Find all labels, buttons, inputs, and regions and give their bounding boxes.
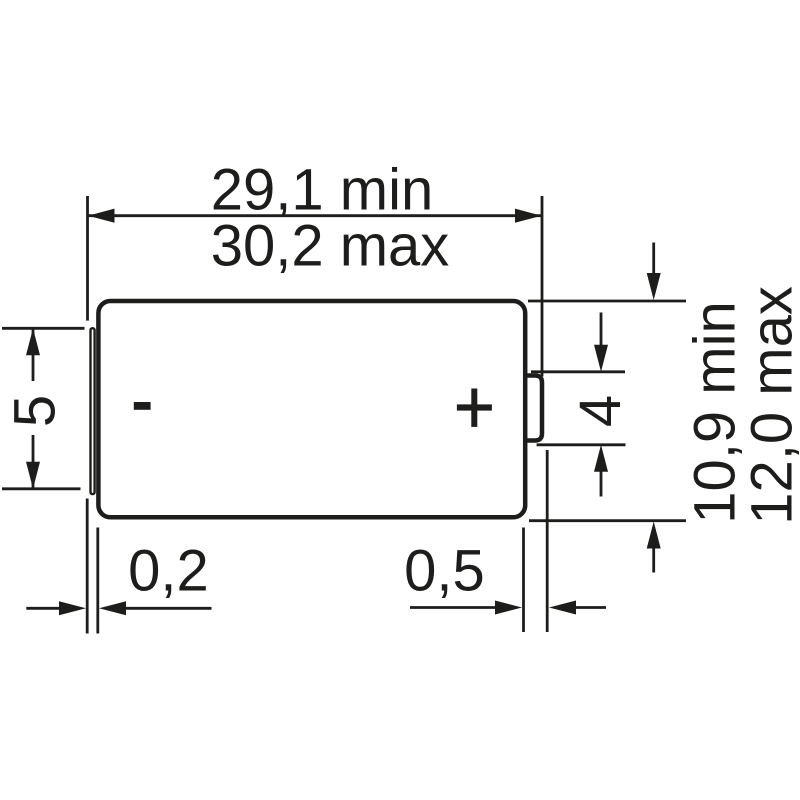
4 dimension bottom extension line	[537, 443, 626, 446]
4 dimension lower arrowhead	[594, 445, 608, 472]
0,2 dimension left arrowhead	[59, 601, 86, 615]
svg-text:10,9 min: 10,9 min	[683, 301, 748, 523]
0,5 dimension left extension line	[522, 528, 525, 633]
left 5 dimension top extension line	[2, 327, 85, 330]
svg-text:30,2 max: 30,2 max	[211, 214, 450, 279]
left 5 dimension lower shaft	[32, 435, 35, 489]
height dimension upper arrow shaft	[652, 243, 655, 277]
0,2 dimension left arrow shaft	[26, 607, 60, 610]
negative end cap plate	[91, 328, 95, 494]
left 5 dimension bottom extension line	[2, 487, 81, 490]
0,5 dimension right arrowhead	[549, 601, 576, 615]
svg-text:5: 5	[3, 395, 68, 427]
height dimension upper arrowhead	[647, 273, 661, 300]
top dimension line	[88, 214, 543, 217]
plus symbol horizontal bar	[457, 404, 492, 410]
4 dimension upper arrow shaft	[600, 313, 603, 349]
height dimension bottom extension line	[529, 519, 686, 522]
height dimension lower arrowhead	[647, 522, 661, 549]
4 dimension upper arrowhead	[594, 345, 608, 372]
height dimension lower arrow shaft	[652, 547, 655, 573]
0,2 dimension left extension line	[86, 499, 89, 634]
battery body outline	[98, 301, 525, 517]
4 dimension top extension line	[531, 370, 625, 373]
svg-text:12,0 max: 12,0 max	[740, 286, 800, 525]
svg-text:0,5: 0,5	[404, 539, 485, 604]
0,5 dimension left arrow shaft	[410, 606, 496, 609]
top dimension right extension line	[541, 196, 544, 377]
minus symbol	[134, 402, 151, 410]
4 dimension lower arrow shaft	[600, 470, 603, 497]
svg-text:4: 4	[568, 395, 633, 427]
left 5 dimension up arrowhead	[26, 328, 40, 355]
plus symbol vertical bar	[471, 389, 477, 427]
top dimension left extension line	[86, 196, 89, 321]
0,2 dimension right arrow shaft	[126, 607, 212, 610]
positive terminal bump	[525, 376, 542, 441]
0,5 dimension right extension line	[546, 450, 549, 632]
left 5 dimension upper shaft	[32, 328, 35, 381]
0,5 dimension left arrowhead	[495, 601, 522, 615]
top dimension right arrowhead	[515, 209, 542, 223]
left 5 dimension down arrowhead	[26, 462, 40, 489]
0,5 dimension right arrow shaft	[576, 606, 606, 609]
height dimension top extension line	[528, 300, 686, 303]
0,2 dimension right extension line	[96, 528, 99, 634]
0,2 dimension right arrowhead	[99, 601, 126, 615]
svg-text:0,2: 0,2	[128, 539, 209, 604]
top dimension left arrowhead	[88, 209, 115, 223]
